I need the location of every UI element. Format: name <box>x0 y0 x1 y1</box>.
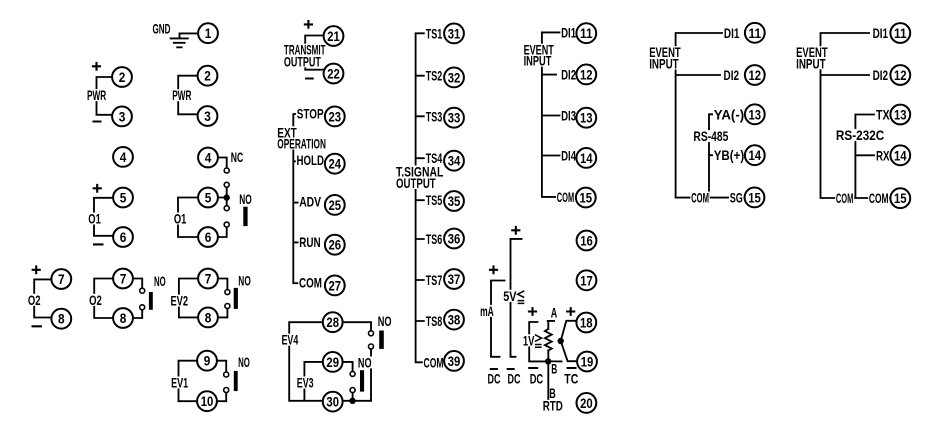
svg-text:21: 21 <box>327 28 340 44</box>
svg-text:6: 6 <box>120 229 127 245</box>
svg-text:16: 16 <box>580 233 593 249</box>
svg-text:DC: DC <box>508 371 521 387</box>
svg-text:39: 39 <box>448 353 461 369</box>
svg-text:COM: COM <box>299 274 322 290</box>
svg-text:OUTPUT: OUTPUT <box>396 175 436 191</box>
svg-text:DI2: DI2 <box>873 67 889 83</box>
svg-text:COM: COM <box>691 190 709 206</box>
svg-text:9: 9 <box>204 353 211 369</box>
svg-text:30: 30 <box>326 394 339 410</box>
svg-text:NC: NC <box>231 149 244 165</box>
svg-text:12: 12 <box>749 67 762 83</box>
svg-text:B: B <box>551 360 557 376</box>
svg-text:6: 6 <box>205 229 212 245</box>
svg-text:O1: O1 <box>88 211 101 227</box>
svg-text:DC: DC <box>530 371 544 387</box>
svg-text:NO: NO <box>378 313 392 329</box>
svg-text:2: 2 <box>119 69 126 85</box>
svg-text:OUTPUT: OUTPUT <box>284 53 321 69</box>
svg-text:TS7: TS7 <box>426 272 443 288</box>
svg-text:24: 24 <box>329 156 342 172</box>
svg-text:20: 20 <box>580 395 593 411</box>
svg-text:DI4: DI4 <box>561 148 576 164</box>
svg-text:DI1: DI1 <box>724 25 740 41</box>
svg-text:1V: 1V <box>523 332 535 348</box>
svg-text:7: 7 <box>205 271 212 287</box>
svg-text:NO: NO <box>238 354 250 370</box>
svg-text:35: 35 <box>448 193 461 209</box>
svg-text:4: 4 <box>205 150 212 166</box>
svg-text:38: 38 <box>448 312 461 328</box>
svg-text:EV3: EV3 <box>297 375 314 391</box>
svg-text:TS3: TS3 <box>426 108 443 124</box>
svg-text:EV4: EV4 <box>282 332 299 348</box>
svg-text:TX: TX <box>876 107 890 123</box>
svg-text:11: 11 <box>894 25 907 41</box>
svg-text:RS-232C: RS-232C <box>836 127 884 143</box>
svg-text:DC: DC <box>488 371 501 387</box>
svg-text:5: 5 <box>120 190 127 206</box>
svg-text:36: 36 <box>448 231 461 247</box>
svg-text:PWR: PWR <box>172 87 191 103</box>
svg-text:TS6: TS6 <box>426 231 443 247</box>
svg-text:8: 8 <box>58 311 65 327</box>
svg-text:HOLD: HOLD <box>297 152 325 168</box>
svg-text:15: 15 <box>580 190 593 206</box>
svg-text:YA(-): YA(-) <box>714 106 745 122</box>
svg-text:ADV: ADV <box>299 194 321 210</box>
svg-text:COM: COM <box>836 190 854 206</box>
svg-text:4: 4 <box>120 149 127 165</box>
svg-text:5: 5 <box>205 190 212 206</box>
svg-text:O2: O2 <box>89 292 102 308</box>
svg-text:8: 8 <box>120 310 127 326</box>
svg-text:12: 12 <box>580 66 593 82</box>
svg-text:COM: COM <box>869 190 889 206</box>
svg-text:DI3: DI3 <box>561 107 576 123</box>
svg-text:7: 7 <box>58 271 65 287</box>
svg-text:DI2: DI2 <box>724 67 740 83</box>
svg-text:INPUT: INPUT <box>796 55 826 71</box>
svg-text:19: 19 <box>581 354 594 370</box>
svg-text:13: 13 <box>580 110 593 126</box>
svg-text:13: 13 <box>894 107 907 123</box>
svg-text:17: 17 <box>580 272 593 288</box>
svg-text:A: A <box>551 305 558 321</box>
svg-text:NO: NO <box>239 191 252 207</box>
svg-text:NO: NO <box>358 354 372 370</box>
svg-text:13: 13 <box>749 106 762 122</box>
svg-text:EV1: EV1 <box>171 375 188 391</box>
svg-text:1: 1 <box>205 25 212 41</box>
svg-text:14: 14 <box>749 147 762 163</box>
svg-text:31: 31 <box>448 25 461 41</box>
svg-text:3: 3 <box>119 108 126 124</box>
svg-text:mA: mA <box>480 303 494 319</box>
svg-text:3: 3 <box>204 108 211 124</box>
svg-text:RUN: RUN <box>299 234 320 250</box>
svg-text:DI2: DI2 <box>561 66 576 82</box>
svg-text:COM: COM <box>557 189 575 205</box>
svg-text:TS2: TS2 <box>426 68 443 84</box>
svg-text:22: 22 <box>327 66 340 82</box>
svg-text:DI1: DI1 <box>561 25 576 41</box>
svg-text:COM: COM <box>424 354 444 370</box>
svg-text:YB(+): YB(+) <box>714 147 745 163</box>
svg-text:TC: TC <box>564 371 578 387</box>
svg-text:GND: GND <box>153 20 171 36</box>
svg-text:TS8: TS8 <box>426 313 443 329</box>
svg-text:10: 10 <box>201 393 214 409</box>
svg-text:INPUT: INPUT <box>524 53 552 69</box>
svg-text:34: 34 <box>448 153 461 169</box>
svg-text:SG: SG <box>730 190 743 206</box>
svg-text:TS1: TS1 <box>426 25 443 41</box>
svg-text:15: 15 <box>748 189 761 205</box>
svg-text:NO: NO <box>238 272 251 288</box>
svg-text:7: 7 <box>120 271 127 287</box>
svg-text:32: 32 <box>448 69 461 85</box>
svg-text:18: 18 <box>580 315 593 331</box>
svg-text:O1: O1 <box>174 211 187 227</box>
svg-text:15: 15 <box>894 190 907 206</box>
svg-text:11: 11 <box>749 25 762 41</box>
svg-text:PWR: PWR <box>87 87 106 103</box>
svg-text:28: 28 <box>326 314 339 330</box>
svg-text:STOP: STOP <box>297 105 324 121</box>
svg-text:14: 14 <box>580 150 593 166</box>
svg-text:14: 14 <box>894 147 907 163</box>
svg-text:NO: NO <box>154 273 166 289</box>
svg-text:2: 2 <box>204 68 211 84</box>
svg-text:5V: 5V <box>503 288 517 304</box>
svg-text:EV2: EV2 <box>171 293 189 309</box>
svg-text:26: 26 <box>329 237 342 253</box>
svg-text:INPUT: INPUT <box>649 55 679 71</box>
svg-text:29: 29 <box>326 354 339 370</box>
svg-text:DI1: DI1 <box>873 25 889 41</box>
svg-text:23: 23 <box>329 108 342 124</box>
svg-text:37: 37 <box>448 271 461 287</box>
svg-text:27: 27 <box>329 277 342 293</box>
svg-text:12: 12 <box>894 67 907 83</box>
svg-text:8: 8 <box>205 309 212 325</box>
svg-text:TS5: TS5 <box>426 192 443 208</box>
svg-text:OPERATION: OPERATION <box>277 136 326 152</box>
svg-text:RX: RX <box>876 147 890 163</box>
svg-text:11: 11 <box>580 25 593 41</box>
svg-text:RS-485: RS-485 <box>693 128 728 144</box>
svg-text:25: 25 <box>329 197 342 213</box>
svg-text:33: 33 <box>448 110 461 126</box>
svg-text:O2: O2 <box>28 292 41 308</box>
svg-text:RTD: RTD <box>543 398 563 414</box>
